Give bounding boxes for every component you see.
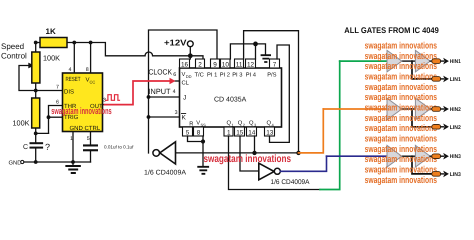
timer IC 555 body: [63, 73, 103, 132]
potentiometer 100K body: [32, 52, 40, 83]
wire input row HIN2: [323, 108, 387, 110]
wire to 555 pin 4: [73, 43, 75, 74]
wire Q3 net horizontal: [176, 152, 299, 154]
wire PI1/PI4 ground rail: [230, 44, 265, 59]
wire between buffers row HIN3: [402, 155, 416, 157]
buffer gate B (1/6 IC 4049) row HIN2: [415, 98, 430, 120]
output terminal LIN1: [432, 77, 441, 82]
buffer gate A (1/6 IC 4049) row HIN2: [387, 98, 402, 120]
svg-text:2: 2: [198, 62, 202, 69]
pin box 12: [246, 59, 256, 68]
svg-text:1/6 CD4009A: 1/6 CD4009A: [271, 179, 310, 186]
node J junction: [147, 95, 151, 99]
wire ground rail: [24, 161, 91, 163]
red arrowhead at CL: [170, 78, 176, 84]
svg-text:PI 3: PI 3: [232, 72, 242, 79]
resistor 100K R2: [32, 98, 40, 128]
capacitor 0.01uf plates: [83, 144, 98, 146]
wire to 555 pin 8: [90, 43, 92, 74]
wire pins 5,8 to ground: [188, 136, 204, 166]
wire branch to LIN2: [412, 109, 432, 127]
svg-text:4: 4: [173, 89, 176, 95]
wire cap to gnd rail: [90, 151, 92, 162]
svg-text:HIN3: HIN3: [450, 154, 461, 160]
buffer gate A (1/6 IC 4049) row HIN1: [387, 50, 402, 72]
svg-text:INPUT: INPUT: [149, 87, 171, 96]
wire CL pin stub: [175, 80, 180, 82]
wire 1K right to +12V rail: [67, 43, 145, 56]
output terminal LIN2: [432, 125, 441, 130]
svg-text:16: 16: [181, 62, 189, 69]
wire 555 pin 5 to cap: [90, 132, 92, 145]
pin box 10: [221, 59, 231, 68]
pin box 14: [247, 127, 257, 136]
svg-text:PI 2: PI 2: [220, 72, 230, 79]
wire to J pin 4: [149, 96, 180, 98]
svg-text:?: ?: [45, 142, 50, 152]
svg-text:C: C: [23, 144, 28, 151]
wire input row HIN3: [327, 155, 388, 157]
svg-text:0.01uf to 0.1uf: 0.01uf to 0.1uf: [104, 145, 134, 150]
svg-text:LIN1: LIN1: [450, 77, 461, 83]
GND terminal circle: [21, 160, 24, 163]
wire cap C to gnd rail: [35, 149, 37, 162]
svg-text:7: 7: [273, 62, 277, 69]
ground symbol under pin 8: [198, 167, 208, 174]
555 pin numbers: [56, 67, 106, 142]
pin box 13: [265, 127, 275, 136]
node PI4 junction: [253, 42, 258, 47]
555 pin labels: [64, 76, 103, 132]
pot wiper arrowhead: [28, 63, 34, 69]
svg-text:Speed: Speed: [1, 42, 24, 51]
wire 555 OUT stub: [103, 104, 105, 106]
watermark text rows (orange): [365, 39, 437, 185]
svg-text:swagatam innovations: swagatam innovations: [51, 106, 112, 116]
CD4035A inner labels: [182, 72, 277, 128]
pin box 9: [211, 59, 220, 68]
svg-text:1/6 CD4009A: 1/6 CD4009A: [144, 170, 186, 177]
node TRIG junction: [47, 115, 51, 119]
wire gate B output to HIN1: [430, 60, 432, 62]
wire TRIG: [49, 116, 63, 118]
svg-text:5: 5: [87, 136, 90, 142]
svg-text:DIS: DIS: [64, 88, 74, 95]
CD4035A left pin numbers: [173, 72, 178, 116]
wire green Q1 to gate row 1: [320, 61, 340, 189]
svg-text:CD 4035A: CD 4035A: [214, 97, 247, 104]
svg-text:1K: 1K: [46, 27, 56, 36]
node junction 1K/pot: [34, 41, 38, 45]
wire to K pin 3: [149, 116, 180, 118]
svg-text:T/C: T/C: [195, 72, 204, 79]
wire PI3 pin 11 loop: [244, 31, 299, 153]
svg-text:8: 8: [86, 67, 89, 73]
svg-text:6: 6: [56, 100, 59, 106]
svg-text:1: 1: [70, 136, 73, 142]
wire input row HIN1: [340, 60, 387, 62]
svg-text:K: K: [182, 115, 187, 122]
wire R2 bottom to cap C: [36, 128, 49, 142]
svg-text:LIN2: LIN2: [450, 125, 461, 131]
output terminal HIN1: [432, 59, 441, 64]
svg-text:10: 10: [222, 62, 230, 69]
pin box 15: [235, 127, 245, 136]
wire orange Q3 net to gate row 2: [299, 109, 324, 153]
wire 555 pin 1 down: [72, 132, 74, 166]
wire gate B output to HIN2: [430, 108, 432, 110]
svg-text:4: 4: [69, 67, 72, 73]
node junction at 555 pin8: [89, 41, 93, 45]
wire 1K left to pot top: [36, 43, 40, 53]
node R2/C junction: [34, 132, 38, 136]
svg-text:+12V: +12V: [164, 38, 187, 48]
pin box 5: [183, 127, 193, 136]
node Q3 junction: [252, 151, 256, 155]
wire navy inverter2 out to gate row 3: [280, 156, 326, 171]
svg-text:9: 9: [213, 62, 217, 69]
wire Q4 pin 13 to P/S pin 7: [270, 45, 290, 142]
svg-text:RESET: RESET: [66, 76, 81, 83]
svg-text:swagatam innovations: swagatam innovations: [365, 133, 437, 144]
svg-text:ALL GATES FROM IC 4049: ALL GATES FROM IC 4049: [344, 26, 439, 35]
+12V supply terminal: [187, 41, 193, 47]
svg-text:3: 3: [175, 110, 178, 116]
capacitor C plates: [30, 142, 44, 144]
pin box 8: [194, 127, 204, 136]
svg-text:R: R: [189, 121, 193, 127]
svg-text:PI 4: PI 4: [246, 73, 257, 79]
node pot/R2/DIS junction: [34, 89, 38, 93]
wire red clock from 555 OUT to CL: [105, 81, 171, 105]
svg-text:CL: CL: [182, 80, 190, 87]
svg-text:LIN3: LIN3: [450, 172, 461, 178]
node cap/gnd junction: [34, 160, 38, 164]
svg-text:PI 1: PI 1: [207, 73, 217, 79]
wire between buffers row HIN2: [402, 108, 416, 110]
svg-text:7: 7: [56, 85, 59, 91]
node PI3 loop junction: [296, 151, 300, 155]
inverter U3 1/6 CD4009A (right): [259, 163, 274, 180]
pin box 11: [235, 59, 244, 68]
node pin1/gnd junction: [71, 160, 75, 164]
IC CD4035A body: [180, 68, 282, 127]
ground symbol under 555: [66, 166, 80, 173]
svg-text:HIN1: HIN1: [450, 59, 461, 65]
svg-text:GND: GND: [9, 160, 22, 167]
svg-text:swagatam innovations: swagatam innovations: [365, 81, 437, 92]
inverter U2 1/6 CD4009A (left): [160, 142, 176, 164]
wire Q2 pin 15 to inverter 2: [240, 136, 259, 171]
wire hop over vertical rail: [145, 52, 153, 56]
wire THR: [49, 106, 63, 134]
svg-text:HIN2: HIN2: [450, 107, 461, 113]
output terminal HIN3: [432, 154, 441, 159]
buffer gate A (1/6 IC 4049) row HIN3: [387, 145, 402, 167]
buffer gate B (1/6 IC 4049) row HIN1: [415, 50, 430, 72]
svg-text:100K: 100K: [13, 119, 30, 128]
pin numbers CD4035A: [181, 62, 277, 137]
svg-text:DD: DD: [186, 74, 192, 79]
output terminal HIN2: [432, 107, 441, 112]
pin box 2: [196, 59, 205, 68]
wire between buffers row HIN1: [402, 60, 416, 62]
square wave symbol: [106, 95, 120, 101]
pin box 16: [180, 59, 190, 68]
svg-text:12: 12: [247, 62, 255, 69]
wire branch to LIN1: [412, 61, 432, 79]
svg-text:8: 8: [197, 130, 201, 137]
wire pot wiper to DIS: [19, 66, 63, 91]
svg-text:P/S: P/S: [267, 72, 276, 79]
svg-text:GND: GND: [70, 125, 84, 132]
svg-text:J: J: [183, 95, 186, 102]
svg-text:6: 6: [173, 72, 176, 78]
pin box 1: [224, 127, 233, 136]
node junction at 555 pin4: [72, 41, 76, 45]
svg-text:CTRL: CTRL: [85, 125, 101, 132]
svg-text:swagatam innovations: swagatam innovations: [365, 153, 437, 164]
wire pot bottom to 100K R2 top: [35, 83, 37, 98]
svg-text:swagatam innovations: swagatam innovations: [204, 153, 292, 165]
svg-text:swagatam innovations: swagatam innovations: [365, 39, 437, 50]
node K junction: [147, 115, 151, 119]
resistor 1K: [40, 38, 67, 48]
wire Q3 pin 14 down: [254, 136, 256, 153]
wire Q1 pin 1 down and right: [229, 136, 321, 190]
wire J/K feedback vertical: [149, 30, 218, 153]
svg-text:CLOCK: CLOCK: [149, 68, 173, 77]
buffer gate B (1/6 IC 4049) row HIN3: [415, 145, 430, 167]
node pin8 junction: [201, 139, 205, 143]
svg-text:swagatam innovations: swagatam innovations: [365, 112, 437, 123]
pin box 7: [270, 59, 280, 68]
K overline: [182, 113, 186, 115]
output terminal LIN3: [432, 172, 441, 177]
svg-text:swagatam innovations: swagatam innovations: [365, 70, 437, 81]
wire gate B output to HIN3: [430, 155, 432, 157]
ground symbol near pin 7: [262, 55, 271, 62]
svg-text:100K: 100K: [43, 54, 60, 63]
svg-text:CC: CC: [90, 80, 96, 85]
svg-text:Control: Control: [1, 52, 27, 61]
svg-text:11: 11: [236, 62, 243, 69]
wire branch to LIN3: [412, 156, 432, 174]
svg-text:SS: SS: [201, 123, 207, 128]
wire rail to CD4035 pins 16,2: [153, 56, 203, 59]
svg-text:swagatam innovations: swagatam innovations: [365, 174, 437, 185]
